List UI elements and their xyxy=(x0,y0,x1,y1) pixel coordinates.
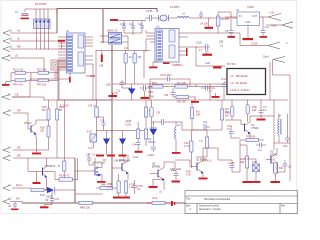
component CH8 crossed box xyxy=(252,161,260,178)
svg-text:P/B 13D: P/B 13D xyxy=(177,100,186,103)
transistor Q7 BF9452 xyxy=(150,162,165,190)
IC U1 CD88B xyxy=(155,26,183,67)
junction dot xyxy=(45,189,46,190)
capacitor C14b xyxy=(221,78,227,100)
capacitor C1 xyxy=(15,11,29,19)
svg-text:RB: RB xyxy=(17,46,21,49)
capacitor C3 xyxy=(145,10,158,21)
capacitor C/F 0.1 xyxy=(86,153,96,165)
svg-text:RF-49 686: RF-49 686 xyxy=(35,3,47,6)
connector J2 CB xyxy=(2,94,112,101)
svg-text:LB: LB xyxy=(15,55,18,58)
ground mid2 xyxy=(141,97,150,99)
transistor Q6 VT5686 xyxy=(266,148,278,170)
resistor R22 1M xyxy=(225,100,234,120)
wire detector bus xyxy=(176,122,207,137)
crystal Y1 15.3MHz xyxy=(159,6,181,21)
ground C7 xyxy=(257,119,266,121)
connector J6 Mono xyxy=(3,184,31,191)
svg-text:1100: 1100 xyxy=(176,168,182,171)
resistor R2E col xyxy=(144,129,147,146)
resistor R21 xyxy=(192,100,230,130)
svg-text:IN: IN xyxy=(239,15,242,18)
IC U2 HC9P16 xyxy=(66,30,96,78)
svg-text:DR: DR xyxy=(17,110,21,113)
ground P42 xyxy=(171,201,175,206)
power bar xyxy=(205,18,214,29)
svg-text:RCF 4.7C: RCF 4.7C xyxy=(59,175,70,178)
transistor Q2 VT5668 xyxy=(28,158,55,190)
wire mic bus xyxy=(75,193,103,195)
wire band bus xyxy=(148,84,230,100)
ground xyxy=(2,82,11,86)
ground Q7 xyxy=(149,179,165,188)
connector J2 LB xyxy=(2,55,44,72)
svg-text:P1D: P1D xyxy=(40,194,45,197)
svg-text:L1 - 5M 6ACE: L1 - 5M 6ACE xyxy=(231,74,248,78)
inductor L2 xyxy=(175,122,181,148)
resistor R5 xyxy=(124,51,134,85)
svg-text:DR: DR xyxy=(17,147,21,150)
svg-text:C/B: C/B xyxy=(219,41,223,44)
capacitor C24 xyxy=(225,19,235,38)
svg-text:/4B: /4B xyxy=(138,56,142,59)
resistor P/B 13D xyxy=(173,95,195,103)
power bars U1 pins xyxy=(163,48,188,64)
wire Q5 collector top xyxy=(250,100,274,150)
ground CH8 xyxy=(252,178,261,183)
junction magenta xyxy=(147,202,149,204)
svg-text:C21: C21 xyxy=(203,121,208,124)
svg-text:Hamradio Confecionale: Hamradio Confecionale xyxy=(204,198,231,201)
svg-text:C13 || DK1: C13 || DK1 xyxy=(160,74,172,77)
ground D3 xyxy=(96,155,115,163)
capacitor C11 xyxy=(129,23,135,33)
svg-text:13 F: 13 F xyxy=(90,75,95,78)
ground mid xyxy=(109,93,119,97)
svg-text:+C/35: +C/35 xyxy=(228,162,235,165)
wire U1 left pins xyxy=(146,30,155,52)
resistor R10 5M xyxy=(42,100,50,126)
wire U2 left pins xyxy=(58,37,67,70)
resistor R31 500 xyxy=(270,159,284,182)
ground right xyxy=(271,181,281,183)
svg-text:C3 88: C3 88 xyxy=(146,10,153,13)
svg-text:OUT: OUT xyxy=(252,15,258,18)
svg-text:U/1: U/1 xyxy=(156,26,160,29)
svg-text:LOOK: LOOK xyxy=(251,43,258,46)
capacitor C7 0.1 xyxy=(259,100,268,118)
IC U4 7805 xyxy=(236,6,260,26)
ground C30 xyxy=(172,181,181,183)
svg-text:RA2: RA2 xyxy=(153,197,158,200)
wire U2 bottom exit xyxy=(12,73,70,97)
svg-text:1kB: 1kB xyxy=(240,161,245,164)
resistor R12 C/B 1.9 xyxy=(88,100,98,134)
connector Out A xyxy=(263,56,290,101)
wire U1 right pins xyxy=(179,33,240,55)
capacitor C34 xyxy=(274,120,290,150)
svg-text:C3A: C3A xyxy=(283,145,288,148)
resistor R2D col xyxy=(144,100,153,129)
diode pack D1-D4 xyxy=(34,19,51,29)
wire bottom bus xyxy=(22,158,185,203)
transistor Q1 Kf512 xyxy=(24,113,37,138)
wire diode outputs xyxy=(36,29,48,50)
svg-text:Out A: Out A xyxy=(263,56,269,59)
resistor RM vertical xyxy=(58,158,66,180)
diode D4 xyxy=(119,131,126,155)
diode D5 5022 xyxy=(46,187,75,199)
diode D2 xyxy=(128,84,136,100)
power bar -B xyxy=(58,40,65,49)
resistor P42 xyxy=(148,197,170,205)
svg-text:C/F: C/F xyxy=(86,154,90,157)
svg-text:-B: -B xyxy=(17,38,20,41)
svg-text:1.7K: 1.7K xyxy=(107,186,112,189)
svg-text:C/D: C/D xyxy=(55,198,59,201)
svg-text:P/7 13D: P/7 13D xyxy=(177,82,186,85)
svg-text:Title: Title xyxy=(186,197,191,200)
svg-text:CD88B(L): CD88B(L) xyxy=(172,64,183,67)
wire cap bus xyxy=(114,21,146,26)
wire U2 right pins xyxy=(85,37,93,64)
connector J7 MIC xyxy=(3,198,22,205)
svg-text:L2 - 5V 6ACE: L2 - 5V 6ACE xyxy=(231,81,248,85)
svg-text:GND: GND xyxy=(245,21,251,24)
svg-text:14B: 14B xyxy=(99,65,104,68)
svg-text:R#B 1DD: R#B 1DD xyxy=(80,207,90,210)
wire pin bundle to U2 xyxy=(51,60,67,68)
capacitor C36 xyxy=(228,160,240,172)
capacitor C/B xyxy=(164,88,176,97)
wire diode bus xyxy=(96,130,146,132)
svg-text:RF3 10k: RF3 10k xyxy=(37,84,47,87)
power bar mid xyxy=(212,93,220,98)
svg-text:C/14: C/14 xyxy=(221,78,227,81)
svg-text:C/4F: C/4F xyxy=(133,156,139,159)
resistor R15 xyxy=(125,120,140,142)
wire Q1 collector xyxy=(36,119,49,121)
svg-text:C1D2: C1D2 xyxy=(125,124,132,127)
svg-text:51R: 51R xyxy=(252,109,257,112)
capacitor C8 xyxy=(140,85,153,97)
capacitor C18 xyxy=(147,147,156,157)
inductor L1 xyxy=(177,13,237,18)
wire L1B row xyxy=(196,48,225,69)
svg-text:NE/M 17k: NE/M 17k xyxy=(107,30,118,33)
resistor RC2 4.3k xyxy=(11,69,31,75)
connector LOOK A xyxy=(240,42,288,49)
ground L2 xyxy=(172,148,181,154)
wire main vertical xyxy=(57,9,157,44)
transistor Q8 6T388 xyxy=(190,152,207,177)
resistor R2 2M xyxy=(217,12,232,33)
resistor P7 13D xyxy=(175,82,188,88)
capacitor C1+ xyxy=(260,17,270,38)
ground Q4 xyxy=(97,180,106,183)
power bar xyxy=(110,19,118,21)
wire left vertical xyxy=(64,100,66,158)
svg-text:R4B: R4B xyxy=(101,184,106,187)
connector J5 MR xyxy=(3,155,75,161)
svg-text:R/31: R/31 xyxy=(270,159,276,162)
svg-text:L/1B: L/1B xyxy=(205,62,210,65)
wire mid bus B xyxy=(58,99,112,101)
wire far right vertical xyxy=(288,100,291,181)
resistor R4B xyxy=(96,184,119,190)
svg-text:2M: 2M xyxy=(225,115,228,118)
capacitor C7 xyxy=(120,80,132,88)
title block xyxy=(185,191,298,214)
svg-text:A-1: A-1 xyxy=(258,149,262,152)
resistor R2 51R xyxy=(190,100,200,130)
svg-text:Mono: Mono xyxy=(16,184,23,187)
capacitor C1A 4.7 xyxy=(201,86,215,94)
capacitor C3x xyxy=(276,160,292,172)
svg-text:CB: CB xyxy=(15,94,19,97)
capacitor C35 xyxy=(133,180,144,194)
svg-text:T/3B: T/3B xyxy=(149,96,154,99)
ground C9 xyxy=(40,205,52,209)
resistor R16 xyxy=(184,130,193,177)
capacitor C12 xyxy=(138,23,144,33)
svg-text:Y/B: Y/B xyxy=(156,112,160,115)
wire U2 pin drop xyxy=(92,64,94,100)
svg-text:C/4: C/4 xyxy=(132,144,136,147)
diode D6 xyxy=(148,122,157,146)
wire mid bus D xyxy=(150,84,232,100)
svg-text:7430A: 7430A xyxy=(247,6,254,9)
transistor Q6 BF966AM xyxy=(112,155,130,180)
svg-text:+C/1: +C/1 xyxy=(264,26,270,29)
svg-text:5M: 5M xyxy=(42,109,45,112)
capacitor C0 xyxy=(8,202,19,211)
ground Q8 xyxy=(199,178,208,180)
ground D4 xyxy=(119,155,127,163)
resistor R11 xyxy=(56,100,65,158)
resistor R29 4.3K xyxy=(125,180,135,197)
resistor P10 xyxy=(31,188,47,197)
svg-text:C/1D: C/1D xyxy=(196,42,202,45)
svg-text:RF4 4.3k: RF4 4.3k xyxy=(13,84,24,87)
connector J1 +B xyxy=(3,30,57,36)
svg-text:RTF 500: RTF 500 xyxy=(246,136,256,139)
capacitor C14 xyxy=(132,143,143,160)
diode D3 xyxy=(103,131,110,155)
resistor R6 xyxy=(133,51,141,85)
ground U4 xyxy=(243,38,254,40)
capacitor C1D 4.7 xyxy=(196,42,212,56)
resistor RCF 4.7C xyxy=(43,158,78,181)
resistor R34 xyxy=(79,202,93,210)
vertical resistor R18 xyxy=(196,137,212,163)
svg-text:MC: MC xyxy=(16,198,20,201)
svg-text:C/1: C/1 xyxy=(117,90,121,93)
power bar U2 xyxy=(69,77,71,83)
ground U1 xyxy=(149,62,158,68)
crystal Y2 xyxy=(150,100,176,129)
resistor R28 1.7K xyxy=(107,175,120,197)
svg-text:B1B: B1B xyxy=(149,91,154,94)
inductor L4 xyxy=(278,114,282,140)
svg-text:C64 BF966AM: C64 BF966AM xyxy=(114,160,130,163)
capacitor C21 xyxy=(203,121,210,130)
ground R2B xyxy=(243,181,253,183)
wire base row xyxy=(225,120,241,125)
label C/B 0.1 xyxy=(219,41,224,48)
svg-text:B2D: B2D xyxy=(152,82,157,85)
wire mid bus C xyxy=(112,62,288,100)
ground Q2 xyxy=(33,172,41,185)
wire right bottom links xyxy=(218,145,256,172)
transistor Q5 VT309 xyxy=(241,116,259,140)
wire caps bottom xyxy=(124,33,142,35)
connector GND xyxy=(266,22,293,28)
svg-text:4.3K: 4.3K xyxy=(186,174,191,177)
svg-text:BF9452: BF9452 xyxy=(152,166,161,169)
resistor R1B 51R xyxy=(246,100,257,122)
connector J1 -B xyxy=(3,38,62,44)
wire row y50 xyxy=(96,48,150,100)
capacitor C10 xyxy=(120,23,126,33)
svg-text:BY/ 584: BY/ 584 xyxy=(227,63,236,66)
resistor RTF 500 xyxy=(240,136,264,146)
svg-text:Alexander Y. Version: Alexander Y. Version xyxy=(199,208,222,211)
connector J1 RB xyxy=(3,46,70,53)
capacitor C/21 xyxy=(227,125,240,138)
ground mid band xyxy=(191,101,199,103)
wire top bus xyxy=(25,9,57,19)
resistor R13 xyxy=(40,126,50,146)
svg-text:51R: 51R xyxy=(196,114,201,117)
ground R28 R29 xyxy=(113,197,130,199)
svg-text:500: 500 xyxy=(279,167,284,170)
power red bar vertical xyxy=(99,51,104,68)
connector J3 DR xyxy=(3,110,28,116)
svg-text:+B: +B xyxy=(17,30,20,33)
resistor RF3 10k xyxy=(31,60,58,100)
svg-text:VT5668 M: VT5668 M xyxy=(44,165,55,168)
resistor RC1 10k xyxy=(31,69,58,75)
svg-text:Q/4 BF9662: Q/4 BF9662 xyxy=(92,162,106,165)
svg-text:C4 100: C4 100 xyxy=(200,23,208,26)
svg-text:C19: C19 xyxy=(100,120,105,123)
svg-text:CH8: CH8 xyxy=(252,161,257,164)
connector J4 DR2 xyxy=(3,146,49,153)
component K1D xyxy=(87,131,97,149)
capacitor C13 row xyxy=(150,74,190,100)
svg-text:1DB: 1DB xyxy=(106,84,111,87)
svg-text:K1D: K1D xyxy=(87,131,92,134)
svg-text:L3 N+1, 3+5mm: L3 N+1, 3+5mm xyxy=(231,88,251,92)
wire Q8 collector xyxy=(164,148,218,170)
svg-text:MR: MR xyxy=(17,155,21,158)
svg-text:D5022: D5022 xyxy=(46,196,54,199)
svg-text:4BC22: 4BC22 xyxy=(148,141,156,144)
resistor R2D xyxy=(152,82,163,88)
wire mid bus A xyxy=(111,45,113,190)
capacitor C19 xyxy=(97,117,106,131)
svg-text:C/B: C/B xyxy=(164,94,168,97)
ground Q1 xyxy=(32,138,41,154)
resistor R2B 1kB xyxy=(240,145,249,181)
connector +12V xyxy=(268,12,281,21)
svg-text:1M: 1M xyxy=(225,111,228,114)
capacitor C28b xyxy=(256,143,266,153)
svg-text:VT309: VT309 xyxy=(251,127,259,130)
wire regulator xyxy=(225,17,268,38)
wire transformer leads xyxy=(100,36,128,48)
capacitor C9 xyxy=(45,190,59,205)
resistor RF4 4.3k xyxy=(11,73,31,87)
svg-text:R2 2M: R2 2M xyxy=(222,18,229,21)
capacitor C30 xyxy=(170,168,182,181)
svg-text:+12V: +12V xyxy=(269,12,275,15)
svg-text:4.3K: 4.3K xyxy=(129,186,134,189)
junction C4 xyxy=(199,11,208,26)
svg-text:15.3MHz: 15.3MHz xyxy=(170,6,180,9)
svg-text:+160V: +160V xyxy=(147,154,154,157)
note box L1 L2 L3 xyxy=(227,69,266,95)
svg-text:5R: 5R xyxy=(59,109,62,112)
transformer T1 NE/M 17k xyxy=(107,30,122,45)
mosfet Q4 BF966 xyxy=(75,158,106,180)
